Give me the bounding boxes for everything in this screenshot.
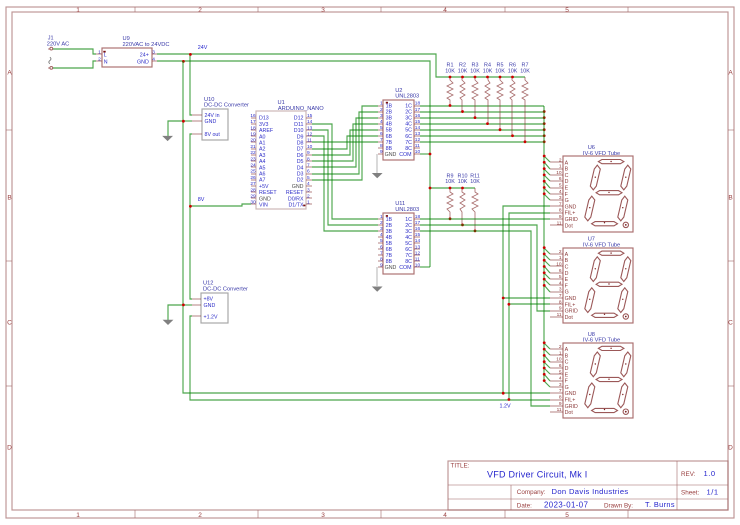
wire segment net C (420, 117, 544, 119)
svg-text:11: 11 (557, 312, 562, 318)
svg-text:A2: A2 (259, 147, 266, 153)
ground (163, 320, 174, 325)
junction (502, 392, 505, 395)
svg-text:4: 4 (380, 232, 383, 238)
svg-text:4: 4 (152, 56, 155, 62)
svg-text:10K: 10K (520, 68, 530, 74)
resistor R7 10K (520, 63, 530, 142)
svg-text:4: 4 (307, 181, 310, 187)
svg-text:7: 7 (559, 388, 562, 394)
wire tube FIL+ column (509, 213, 550, 400)
svg-text:12: 12 (307, 132, 313, 138)
svg-text:6: 6 (559, 176, 562, 182)
title block (448, 461, 728, 510)
junction (543, 128, 546, 131)
svg-text:2: 2 (380, 107, 383, 113)
wire GND net: U9.GND across and down to ULN2803 COM column (157, 61, 430, 267)
wire grid resistor rail (430, 187, 475, 189)
svg-text:10K: 10K (508, 68, 518, 74)
junction (543, 367, 546, 370)
junction (189, 205, 192, 208)
svg-text:GND: GND (205, 119, 217, 125)
svg-text:A: A (565, 252, 569, 258)
svg-text:15: 15 (307, 113, 313, 119)
svg-text:17: 17 (415, 107, 421, 113)
wire tap to U8 segment A (544, 343, 550, 349)
svg-text:9: 9 (380, 149, 383, 155)
VFD tube U8 IV-6 (550, 332, 633, 418)
junction (461, 187, 464, 190)
junction (508, 303, 511, 306)
svg-text:COM: COM (399, 152, 411, 158)
svg-text:220V AC: 220V AC (47, 41, 69, 47)
wire segment net G (420, 141, 544, 143)
svg-text:UNL2803: UNL2803 (395, 94, 419, 100)
svg-text:Dot: Dot (565, 410, 574, 416)
wire D5 to U2.4B (312, 124, 378, 161)
svg-text:Dot: Dot (565, 315, 574, 321)
svg-text:GND: GND (137, 59, 149, 65)
svg-text:D: D (565, 179, 569, 185)
junction (543, 116, 546, 119)
svg-text:E: E (565, 186, 569, 192)
svg-text:GND: GND (259, 196, 271, 202)
svg-text:Dot: Dot (565, 223, 574, 229)
svg-text:5: 5 (307, 175, 310, 181)
svg-text:2: 2 (380, 220, 383, 226)
svg-text:10K: 10K (470, 68, 480, 74)
ground (372, 287, 383, 292)
svg-text:16: 16 (415, 226, 421, 232)
svg-text:6: 6 (559, 363, 562, 369)
wire tap to U7 segment A (544, 248, 550, 254)
junction (461, 110, 464, 113)
wire tap to U6 segment B (544, 162, 550, 169)
svg-text:17: 17 (415, 220, 421, 226)
svg-text:C: C (7, 320, 12, 327)
svg-text:RESET: RESET (286, 190, 304, 196)
junction (543, 354, 546, 357)
svg-text:1: 1 (559, 255, 562, 261)
junction (543, 373, 546, 376)
svg-text:8: 8 (380, 143, 383, 149)
wire D6 to U2.5B (312, 130, 378, 155)
svg-text:28: 28 (250, 187, 256, 193)
wire tap to U6 segment D (544, 175, 550, 181)
svg-text:FIL+: FIL+ (565, 211, 576, 217)
svg-text:D10: D10 (294, 128, 304, 134)
svg-text:20: 20 (250, 138, 256, 144)
svg-text:9: 9 (559, 401, 562, 407)
svg-text:2: 2 (559, 249, 562, 255)
svg-text:D7: D7 (297, 147, 304, 153)
svg-text:3V3: 3V3 (259, 122, 268, 128)
resistor R2 10K (458, 63, 468, 112)
wire segment net F (420, 135, 544, 137)
svg-text:D12: D12 (294, 116, 304, 122)
svg-text:4: 4 (559, 189, 562, 195)
svg-text:VFD Driver Circuit, Mk I: VFD Driver Circuit, Mk I (487, 470, 588, 480)
wire tap to U8 segment B (544, 349, 550, 355)
junction (511, 134, 514, 137)
svg-text:1: 1 (380, 214, 383, 220)
junction (449, 187, 452, 190)
junction (182, 120, 185, 123)
junction (543, 278, 546, 281)
svg-text:5: 5 (559, 274, 562, 280)
svg-text:10K: 10K (458, 68, 468, 74)
svg-text:14: 14 (415, 238, 421, 244)
svg-text:8: 8 (307, 156, 310, 162)
svg-text:10K: 10K (483, 68, 493, 74)
connector J1 220V AC (47, 36, 69, 70)
svg-text:10: 10 (556, 357, 562, 363)
svg-text:10: 10 (415, 149, 421, 155)
svg-text:23: 23 (250, 156, 256, 162)
svg-text:10K: 10K (495, 68, 505, 74)
resistor R1 10K (445, 63, 455, 106)
svg-text:4: 4 (559, 280, 562, 286)
wire D4 to U2.3B (312, 118, 378, 167)
svg-text:1: 1 (559, 164, 562, 170)
junction (502, 297, 505, 300)
svg-text:E: E (565, 277, 569, 283)
svg-text:B: B (565, 167, 569, 173)
svg-text:GRID: GRID (565, 217, 578, 223)
junction (543, 161, 546, 164)
wire tap to U6 segment A (544, 156, 550, 162)
svg-text:GND: GND (204, 303, 216, 309)
svg-text:1: 1 (559, 350, 562, 356)
svg-text:D: D (728, 445, 733, 452)
junction (543, 192, 546, 195)
svg-text:AREF: AREF (259, 128, 274, 134)
svg-text:2: 2 (98, 56, 101, 62)
wire tap to U7 segment D (544, 266, 550, 273)
svg-text:3: 3 (559, 195, 562, 201)
svg-text:15: 15 (415, 232, 421, 238)
wire tap to U7 segment G (544, 285, 550, 292)
svg-text:1.2V: 1.2V (500, 403, 511, 409)
svg-text:7: 7 (307, 163, 310, 169)
resistor R3 10K (470, 63, 480, 118)
svg-text:8: 8 (559, 299, 562, 305)
resistor R9 10K (445, 173, 455, 219)
svg-text:3: 3 (559, 382, 562, 388)
svg-text:D: D (7, 445, 12, 452)
resistor R6 10K (508, 63, 518, 136)
svg-text:+1.2V: +1.2V (204, 314, 218, 320)
svg-text:A6: A6 (259, 172, 266, 178)
svg-text:1: 1 (307, 200, 310, 206)
wire U11.3C to U8.GRID (through R11) (420, 231, 550, 406)
svg-text:2: 2 (198, 7, 202, 14)
wire tap to U6 segment F (544, 188, 550, 194)
wire tap to U8 segment E (544, 368, 550, 374)
svg-text:GND: GND (565, 391, 577, 397)
svg-text:9: 9 (559, 214, 562, 220)
junction (543, 140, 546, 143)
svg-text:D13: D13 (259, 116, 269, 122)
driver U2 UNL2803 (378, 88, 420, 160)
svg-text:18: 18 (250, 125, 256, 131)
wire U7.GND tap (503, 297, 550, 299)
svg-text:11: 11 (557, 407, 562, 413)
junction (461, 223, 464, 226)
junction (189, 53, 192, 56)
junction (524, 140, 527, 143)
DC-DC converter U12 (192, 281, 248, 323)
svg-text:L: L (104, 52, 107, 58)
VFD tube U7 IV-6 (550, 237, 633, 323)
svg-text:+5V: +5V (259, 184, 269, 190)
svg-text:1: 1 (76, 512, 80, 519)
wire segment net B (420, 111, 544, 113)
svg-text:13: 13 (307, 125, 313, 131)
wire tap to U7 segment E (544, 273, 550, 279)
resistor R5 10K (495, 63, 505, 130)
svg-text:A: A (728, 70, 733, 77)
svg-text:7: 7 (559, 201, 562, 207)
junction (543, 174, 546, 177)
svg-text:D8: D8 (297, 141, 304, 147)
junction (449, 217, 452, 220)
wire U7.FIL+ tap (509, 303, 550, 305)
wire segment net E (420, 129, 544, 131)
junction (499, 128, 502, 131)
junction (543, 284, 546, 287)
svg-text:A: A (7, 70, 12, 77)
svg-text:3: 3 (307, 187, 310, 193)
wire tap to U8 segment C (544, 355, 550, 362)
junction (486, 76, 489, 79)
wire tap to U7 segment C (544, 260, 550, 266)
junction (543, 259, 546, 262)
svg-text:5: 5 (380, 125, 383, 131)
svg-text:13: 13 (415, 244, 421, 250)
svg-text:220VAC to 24VDC: 220VAC to 24VDC (123, 42, 170, 48)
svg-text:N: N (104, 59, 108, 65)
junction (543, 246, 546, 249)
svg-text:D: D (565, 366, 569, 372)
wire tap to U6 segment E (544, 181, 550, 188)
svg-text:REV:: REV: (681, 471, 696, 478)
wire 8V branch to U1.VIN (190, 204, 251, 206)
resistor R10 10K (458, 173, 468, 225)
svg-text:A0: A0 (259, 134, 266, 140)
svg-text:5: 5 (559, 183, 562, 189)
svg-text:1/1: 1/1 (707, 487, 719, 496)
resistor R4 10K (483, 63, 493, 124)
svg-text:D2: D2 (297, 178, 304, 184)
svg-text:2: 2 (307, 194, 310, 200)
junction (461, 76, 464, 79)
svg-text:D1/TX: D1/TX (288, 203, 303, 209)
svg-text:14: 14 (415, 125, 421, 131)
ground (372, 173, 383, 178)
svg-text:DC-DC Converter: DC-DC Converter (204, 103, 249, 109)
wire tap to U6 segment G (544, 194, 550, 200)
wire tap to U8 segment D (544, 362, 550, 368)
svg-text:VIN: VIN (259, 203, 268, 209)
svg-text:11: 11 (415, 143, 420, 149)
wire tube GND column (503, 206, 550, 393)
junction (474, 230, 477, 233)
wire segment bus vertical (543, 106, 545, 381)
junction (429, 187, 432, 190)
junction (543, 265, 546, 268)
svg-text:Date:: Date: (517, 503, 532, 510)
wire U12.GND to ground (183, 304, 192, 306)
wire tap to U6 segment C (544, 169, 550, 175)
svg-text:3: 3 (380, 113, 383, 119)
wire 24V net: U9.24+ to resistor rail (157, 54, 525, 77)
wire GND vertical on left (183, 61, 550, 393)
svg-text:Drawn By:: Drawn By: (604, 503, 633, 510)
svg-text:10: 10 (307, 144, 313, 150)
svg-text:6: 6 (380, 131, 383, 137)
svg-text:TITLE:: TITLE: (451, 462, 470, 469)
svg-text:2023-01-07: 2023-01-07 (544, 501, 588, 510)
svg-text:9: 9 (380, 262, 383, 268)
svg-text:3: 3 (321, 7, 325, 14)
svg-text:25: 25 (250, 169, 256, 175)
wire segment net A (420, 105, 544, 107)
svg-text:16: 16 (415, 113, 421, 119)
wire 8V net: U10 out down to U12 input (190, 134, 192, 299)
svg-text:D9: D9 (297, 134, 304, 140)
svg-text:A: A (565, 160, 569, 166)
svg-text:5: 5 (559, 369, 562, 375)
junction (182, 304, 185, 307)
wire D9 to U11.3B (312, 136, 378, 231)
svg-text:8V out: 8V out (205, 132, 221, 138)
wire tap to U8 segment F (544, 374, 550, 381)
svg-text:G: G (565, 290, 569, 296)
junction (499, 76, 502, 79)
svg-text:7: 7 (380, 137, 383, 143)
svg-text:11: 11 (307, 138, 312, 144)
svg-text:10: 10 (556, 170, 562, 176)
svg-text:10K: 10K (470, 179, 480, 185)
svg-text:D0/RX: D0/RX (288, 196, 304, 202)
svg-text:GND: GND (565, 296, 577, 302)
svg-text:2: 2 (559, 344, 562, 350)
svg-text:5: 5 (565, 7, 569, 14)
svg-text:1: 1 (380, 101, 383, 107)
svg-text:22: 22 (250, 150, 256, 156)
svg-text:19: 19 (250, 132, 256, 138)
svg-text:G: G (565, 385, 569, 391)
svg-text:COM: COM (399, 265, 411, 271)
junction (543, 134, 546, 137)
wire tap to U7 segment F (544, 279, 550, 285)
junction (543, 155, 546, 158)
svg-text:D4: D4 (297, 165, 304, 171)
svg-text:21: 21 (250, 144, 256, 150)
svg-text:10: 10 (415, 262, 421, 268)
svg-text:12: 12 (415, 250, 421, 256)
junction (449, 76, 452, 79)
junction (543, 271, 546, 274)
svg-text:2: 2 (198, 512, 202, 519)
wire tap to U8 segment G (544, 381, 550, 387)
driver U11 UNL2803 (378, 201, 420, 274)
svg-text:D11: D11 (294, 122, 303, 128)
svg-text:UNL2803: UNL2803 (395, 207, 419, 213)
wire U11.1C to U6.GRID (through R9) (420, 218, 550, 220)
svg-text:C: C (565, 173, 569, 179)
junction (511, 76, 514, 79)
svg-text:E: E (565, 372, 569, 378)
svg-text:3: 3 (380, 226, 383, 232)
svg-text:G: G (565, 198, 569, 204)
svg-text:16: 16 (250, 113, 256, 119)
svg-text:15: 15 (415, 119, 421, 125)
junction (543, 341, 546, 344)
wire segment net D (420, 123, 544, 125)
svg-text:14: 14 (307, 119, 313, 125)
svg-text:GND: GND (385, 265, 397, 271)
resistor R11 10K (470, 173, 480, 231)
junction (543, 360, 546, 363)
wire U11.COM to GND column (420, 266, 430, 268)
svg-text:D5: D5 (297, 159, 304, 165)
wire D11 to U11.1B (312, 124, 378, 219)
wire D8 to U2.7B (312, 141, 378, 143)
junction (543, 180, 546, 183)
junction (543, 167, 546, 170)
svg-text:11: 11 (557, 220, 562, 226)
svg-text:RESET: RESET (259, 190, 277, 196)
svg-text:24: 24 (250, 163, 256, 169)
svg-text:A7: A7 (259, 178, 266, 184)
svg-text:Company:: Company: (517, 489, 546, 496)
junction (182, 60, 185, 63)
wire GND to U10 and ground (183, 120, 192, 122)
svg-text:10K: 10K (445, 179, 455, 185)
junction (543, 348, 546, 351)
svg-text:30: 30 (250, 200, 256, 206)
svg-text:Sheet:: Sheet: (681, 489, 699, 496)
svg-text:9: 9 (559, 306, 562, 312)
wire U2.COM to GND column (420, 153, 430, 155)
svg-text:24V: 24V (198, 45, 208, 51)
svg-text:10K: 10K (445, 68, 455, 74)
svg-text:3: 3 (152, 49, 155, 55)
svg-text:D3: D3 (297, 172, 304, 178)
svg-text:GND: GND (292, 184, 304, 190)
MCU U1 ARDUINO_NANO (250, 100, 324, 209)
svg-text:24V in: 24V in (205, 113, 220, 119)
svg-text:5: 5 (380, 238, 383, 244)
svg-text:C: C (565, 265, 569, 271)
DC-DC converter U10 (192, 97, 249, 140)
svg-text:1.0: 1.0 (704, 469, 716, 478)
svg-text:6: 6 (380, 244, 383, 250)
svg-text:D: D (565, 271, 569, 277)
svg-text:8: 8 (559, 395, 562, 401)
svg-text:C: C (565, 360, 569, 366)
svg-text:A1: A1 (259, 141, 266, 147)
svg-text:1: 1 (98, 49, 101, 55)
wire U11.2C to U7.GRID (through R10) (420, 225, 550, 311)
junction (486, 122, 489, 125)
svg-text:C: C (728, 320, 733, 327)
svg-text:18: 18 (415, 214, 421, 220)
AC-DC module U9 220VAC to 24VDC (96, 36, 170, 67)
svg-text:B: B (565, 258, 569, 264)
